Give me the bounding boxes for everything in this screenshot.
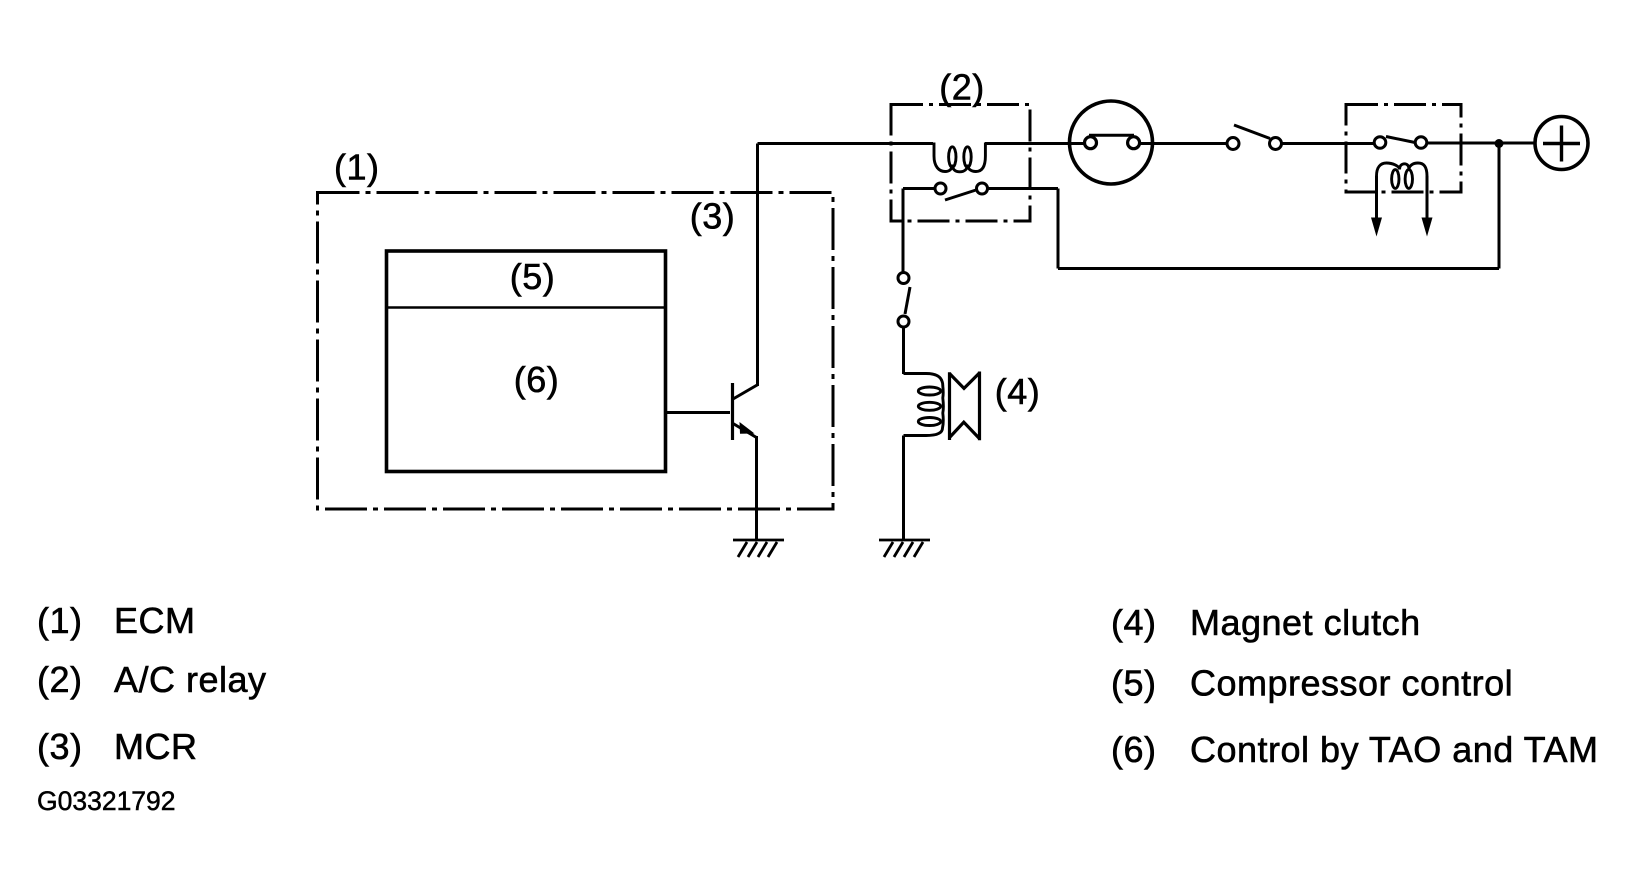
transistor Q1 collector diagonal xyxy=(733,385,758,400)
svg-text:(3): (3) xyxy=(37,726,83,767)
wire: down from relay to A/C switch xyxy=(902,189,905,273)
wire: relay contact feed, right side down xyxy=(1057,189,1060,269)
node: battery junction dot xyxy=(1495,139,1504,148)
wire: collector up to top rail xyxy=(756,144,759,387)
relay switch blade xyxy=(945,190,976,200)
A/C switch S1 blade xyxy=(905,287,910,314)
wire: top rail from collector to A/C relay coil xyxy=(758,142,934,145)
A/C switch S1 lower terminal xyxy=(898,316,909,327)
MCR contact terminal left xyxy=(1374,137,1386,149)
svg-text:A/C relay: A/C relay xyxy=(114,659,267,700)
magnet clutch coil L2 (4) xyxy=(904,374,944,436)
MCR output arrow left xyxy=(1375,176,1378,221)
wire: relay switch to right xyxy=(988,187,1059,190)
ignition switch S2 right terminal xyxy=(1270,138,1282,150)
svg-text:(5): (5) xyxy=(1111,663,1157,704)
svg-text:(2): (2) xyxy=(939,67,985,108)
circuit breaker CB1 body xyxy=(1070,101,1153,184)
circuit breaker terminal right xyxy=(1128,137,1140,149)
relay contact terminal left xyxy=(935,183,946,194)
svg-text:ECM: ECM xyxy=(114,600,196,641)
wire: MCR to battery xyxy=(1427,142,1535,145)
ECM dash-dot box U1 (1) xyxy=(318,193,834,510)
ground G2 (magnet clutch) xyxy=(879,540,930,557)
MCR output arrow right xyxy=(1426,176,1429,221)
MCR switch blade xyxy=(1386,137,1415,143)
divider line between (5) and (6) xyxy=(387,306,666,308)
magnet clutch pulley symbol xyxy=(950,372,980,441)
A/C relay dash-dot box K1 (2) xyxy=(891,105,1030,222)
A/C relay coil L1 xyxy=(934,143,985,172)
svg-text:Magnet clutch: Magnet clutch xyxy=(1190,602,1421,643)
circuit breaker terminal left xyxy=(1085,137,1097,149)
svg-text:(5): (5) xyxy=(510,256,556,297)
ground G1 (transistor emitter) xyxy=(733,540,784,557)
transistor Q1 (MCR output, NPN) base bar xyxy=(731,383,734,440)
ignition switch S2 blade xyxy=(1234,125,1270,139)
MCR contact terminal right xyxy=(1415,137,1427,149)
wire: bottom feed rail xyxy=(1058,267,1499,270)
ignition switch S2 left terminal xyxy=(1227,138,1239,150)
wire: breaker to ignition switch xyxy=(1139,142,1227,145)
transistor Q1 emitter arrow xyxy=(740,422,755,434)
transistor Q1 emitter diagonal xyxy=(733,424,757,438)
battery BT1 xyxy=(1535,117,1588,170)
svg-text:(6): (6) xyxy=(1111,729,1157,770)
svg-text:(2): (2) xyxy=(37,659,83,700)
wire: clutch coil to ground xyxy=(902,436,905,541)
A/C switch S1 upper terminal xyxy=(898,273,909,284)
svg-text:Compressor control: Compressor control xyxy=(1190,663,1513,704)
svg-text:(4): (4) xyxy=(995,371,1041,412)
svg-text:(1): (1) xyxy=(334,147,380,188)
compressor control block (5)/(6) inner box xyxy=(387,251,666,472)
wire: base lead from block (6) to transistor Q1 xyxy=(666,411,731,414)
svg-text:Control by TAO and TAM: Control by TAO and TAM xyxy=(1190,729,1599,770)
wire: bottom feed rail up to battery node xyxy=(1498,144,1501,269)
wire: emitter down to ground xyxy=(755,436,758,540)
MCR relay dash-dot box K2 xyxy=(1346,105,1461,193)
svg-text:(1): (1) xyxy=(37,600,83,641)
circuit breaker element bar xyxy=(1089,134,1134,137)
wire: relay switch left stub xyxy=(903,187,935,190)
wire: relay coil to circuit breaker xyxy=(985,142,1086,145)
MCR coil L3 xyxy=(1377,163,1428,176)
svg-text:(6): (6) xyxy=(514,359,560,400)
svg-text:MCR: MCR xyxy=(114,726,197,767)
wire: ignition switch to MCR box xyxy=(1282,142,1375,145)
svg-text:(4): (4) xyxy=(1111,602,1157,643)
svg-text:(3): (3) xyxy=(690,196,736,237)
wire: A/C switch to magnet clutch coil xyxy=(902,327,905,374)
relay contact terminal right xyxy=(977,183,988,194)
svg-text:G03321792: G03321792 xyxy=(37,786,176,816)
